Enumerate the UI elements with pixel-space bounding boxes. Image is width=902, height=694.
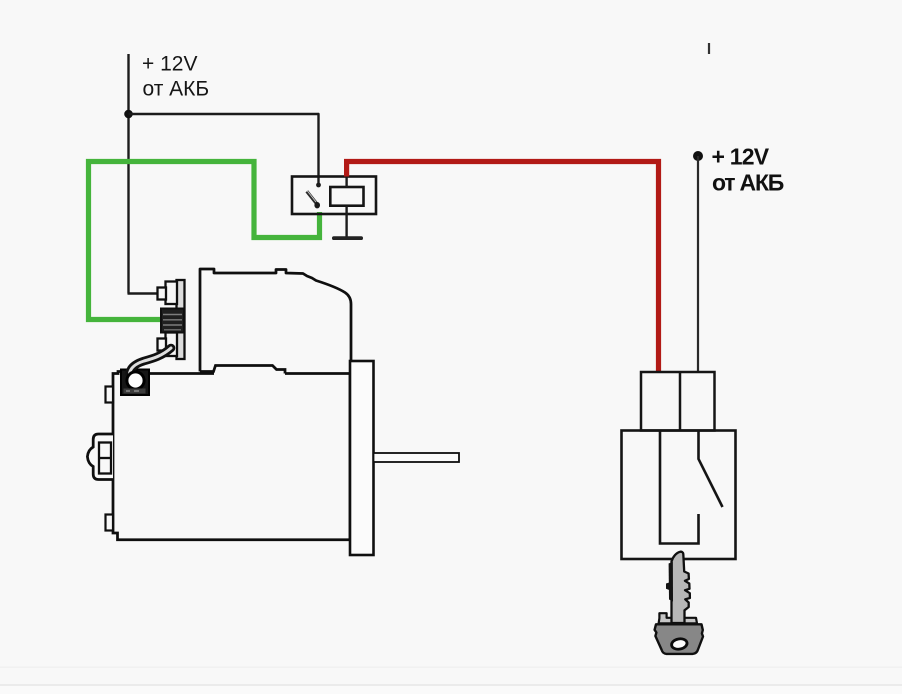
wire: red wire relay to ignition switch bbox=[347, 162, 659, 373]
wire: coil bottom lead to ground bbox=[345, 206, 347, 238]
solenoid control terminal (middle, dark) bbox=[161, 309, 184, 333]
node: junction on +12V feed bbox=[124, 110, 133, 119]
svg-text:от АКБ: от АКБ bbox=[143, 78, 210, 101]
relay coil bbox=[330, 187, 363, 206]
wire: battery to ignition switch contact bbox=[697, 156, 699, 372]
wire: junction to relay, horizontal bbox=[129, 113, 319, 115]
relay movable contact lever bbox=[307, 191, 317, 203]
wire: drop into relay switch input bbox=[317, 114, 319, 185]
brush terminal block with eyelet bbox=[121, 370, 149, 396]
wire: green control wire solenoid terminal to relay bbox=[89, 162, 320, 320]
solenoid body outline bbox=[200, 269, 351, 372]
wire: feed to starter solenoid top terminal bbox=[128, 292, 161, 294]
motor mounting tab top bbox=[106, 387, 114, 403]
solenoid terminal (bottom) nut and stud bbox=[166, 333, 178, 357]
key head hole bbox=[671, 638, 688, 651]
ignition switch S1 body bbox=[622, 431, 736, 560]
motor body outline bbox=[113, 372, 350, 540]
starter motor M1 bbox=[87, 269, 459, 555]
svg-text:+ 12V: + 12V bbox=[142, 53, 197, 76]
tick mark bbox=[708, 43, 710, 54]
shaft bbox=[374, 453, 460, 462]
key blade bbox=[672, 552, 690, 623]
solenoid lower plateau bbox=[200, 366, 285, 374]
faint page line bottom bbox=[0, 667, 902, 669]
node: +12V battery terminal (right) bbox=[693, 151, 703, 161]
key head bbox=[655, 624, 703, 654]
ground bbox=[332, 236, 363, 240]
key collar bbox=[659, 613, 697, 623]
eyelet ring bbox=[127, 372, 144, 389]
ignition switch connector block bbox=[641, 372, 715, 431]
relay K1 box bbox=[292, 177, 376, 215]
wire: coil top lead bbox=[345, 177, 347, 188]
solenoid end cap plate bbox=[177, 280, 185, 359]
through-bolt head on left bbox=[87, 434, 113, 480]
switch contact and open blade bbox=[699, 431, 723, 508]
solenoid terminal B (top) nut and stud bbox=[166, 282, 178, 305]
drive end bracket bbox=[350, 361, 374, 555]
wire: +12V battery feed, left vertical bbox=[127, 54, 129, 294]
switch fixed contact channel bbox=[660, 431, 699, 544]
motor mounting tab bottom bbox=[106, 515, 114, 531]
copper strap solenoid to motor bbox=[130, 348, 172, 374]
key in ignition bbox=[655, 552, 703, 654]
svg-text:+ 12V: + 12V bbox=[712, 143, 770, 169]
svg-text:от АКБ: от АКБ bbox=[712, 169, 784, 195]
key blade dark groove bbox=[669, 562, 673, 602]
